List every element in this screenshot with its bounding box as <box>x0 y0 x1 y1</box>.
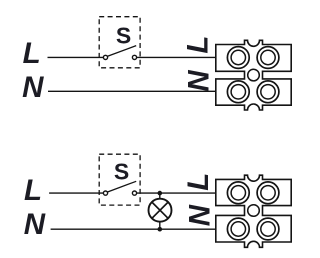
svg-text:S: S <box>114 159 129 185</box>
svg-text:L: L <box>182 173 215 191</box>
svg-text:L: L <box>24 174 42 207</box>
svg-text:N: N <box>183 204 216 226</box>
svg-text:N: N <box>22 71 44 104</box>
svg-text:L: L <box>182 36 215 54</box>
svg-text:N: N <box>24 208 46 241</box>
svg-text:S: S <box>116 23 131 49</box>
svg-text:L: L <box>23 37 41 70</box>
svg-text:N: N <box>182 70 215 92</box>
